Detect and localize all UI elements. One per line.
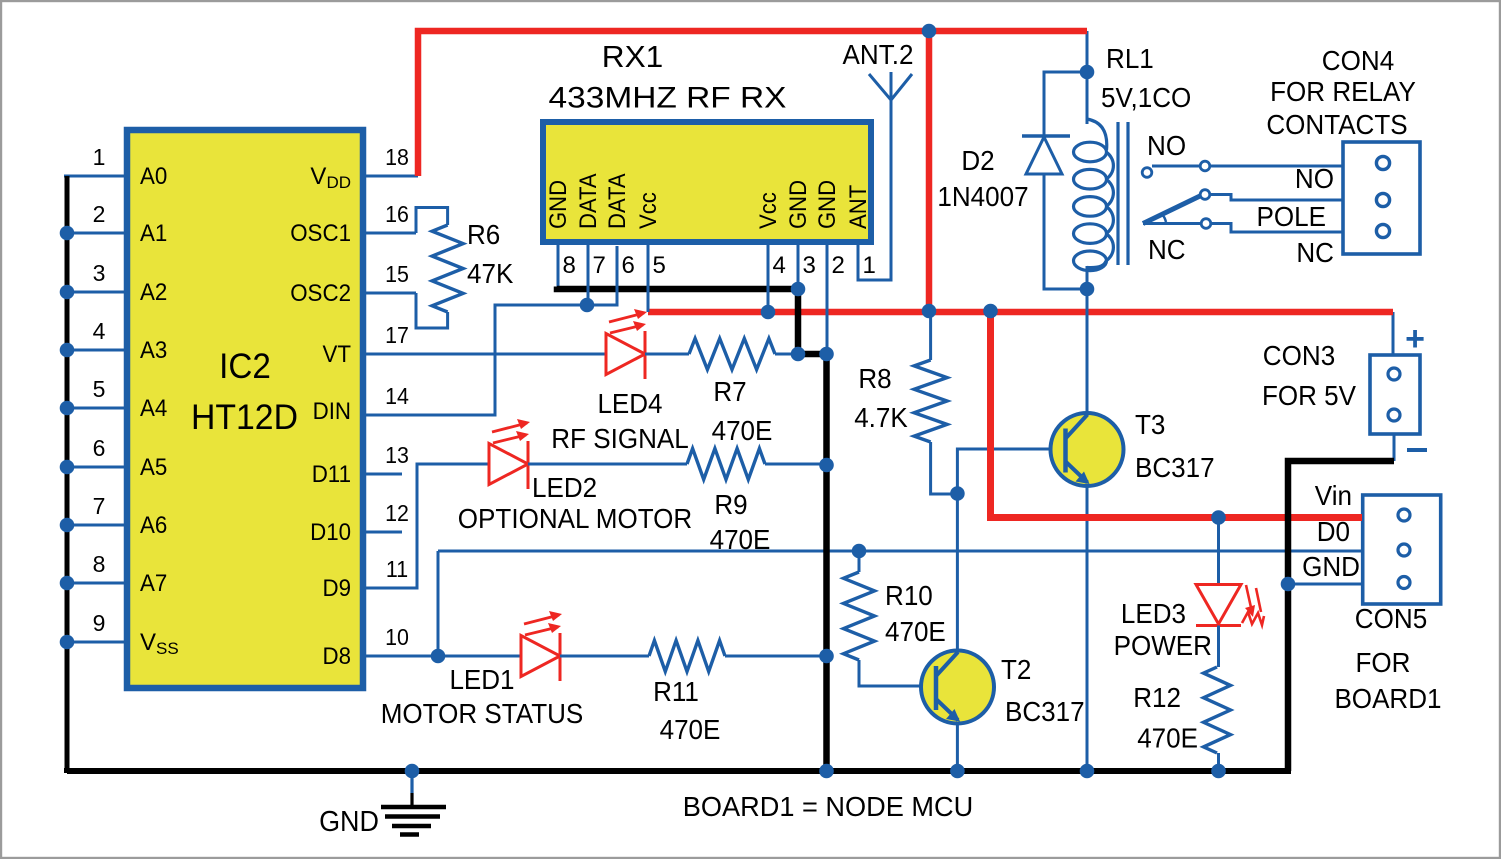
svg-text:7: 7 — [93, 493, 106, 519]
junction D8/LED1 — [431, 649, 446, 664]
transistor T2 NPN BC317 — [921, 651, 994, 724]
relay switch NO contact — [1152, 165, 1343, 168]
junction top rail — [922, 24, 937, 39]
wire pin 16 OSC1 stub — [363, 232, 416, 235]
wire pin 6 to bus — [64, 466, 125, 469]
resistor R11 470E — [649, 641, 725, 672]
svg-text:3: 3 — [803, 252, 816, 279]
svg-text:ANT.2: ANT.2 — [843, 39, 914, 70]
svg-text:MOTOR STATUS: MOTOR STATUS — [381, 698, 584, 729]
svg-text:T2: T2 — [1001, 654, 1031, 685]
wire pin 7 to bus — [64, 524, 125, 527]
svg-text:POWER: POWER — [1114, 630, 1212, 661]
junction R8/T2 collector/T3 base — [950, 486, 965, 501]
svg-text:Vcc: Vcc — [755, 192, 782, 229]
svg-text:16: 16 — [385, 201, 409, 227]
LED LED3 pointing down — [1217, 518, 1220, 585]
wire pin 18 VDD stub — [363, 175, 418, 178]
relay switch pole lever — [1143, 196, 1200, 224]
svg-text:5V,1CO: 5V,1CO — [1101, 82, 1191, 113]
wire pin 17 VT to LED4 — [363, 353, 606, 356]
svg-text:4: 4 — [773, 252, 786, 279]
wire LED4 to R7 — [645, 353, 689, 356]
wire T2 emitter to gnd rail — [956, 723, 959, 771]
svg-text:14: 14 — [385, 383, 409, 409]
svg-text:11: 11 — [386, 556, 408, 582]
wire T3 collector to relay/diode — [1086, 289, 1089, 413]
svg-text:R8: R8 — [858, 363, 891, 394]
svg-text:17: 17 — [385, 322, 409, 348]
svg-text:+: + — [1405, 320, 1425, 358]
wire RX pin 8 lead — [557, 243, 560, 289]
resistor R12 470E — [1217, 626, 1220, 668]
junction bus pin 4 — [60, 343, 75, 358]
svg-text:470E: 470E — [1137, 723, 1198, 754]
junction relay/D2/T3 — [1080, 282, 1095, 297]
svg-text:D9: D9 — [323, 575, 352, 602]
svg-text:6: 6 — [622, 252, 635, 279]
junction ground tap — [405, 764, 420, 779]
svg-text:15: 15 — [385, 261, 409, 287]
svg-text:5: 5 — [653, 252, 666, 279]
svg-text:GND: GND — [545, 180, 572, 229]
resistor R6 47K — [416, 208, 448, 234]
connector CON3 — [1392, 312, 1395, 355]
junction bus pin 2 — [60, 226, 75, 241]
wire CON5 GND pin — [1288, 583, 1362, 586]
wire pin 4 to bus — [64, 349, 125, 352]
junction bus pin 5 — [60, 401, 75, 416]
wire RX pin 5 Vcc lead — [647, 243, 650, 312]
svg-text:HT12D: HT12D — [191, 398, 298, 437]
resistor R7 470E — [689, 339, 775, 370]
svg-text:RX1: RX1 — [602, 39, 664, 74]
svg-text:Vcc: Vcc — [635, 192, 662, 229]
svg-text:LED3: LED3 — [1121, 598, 1186, 629]
junction bus pin 9 — [60, 635, 75, 650]
svg-text:GND: GND — [319, 806, 379, 838]
junction RX pin3 gnd — [791, 282, 806, 297]
antenna ANT.2 symbol — [869, 74, 912, 100]
svg-text:8: 8 — [93, 551, 106, 577]
junction bus pin 3 — [60, 285, 75, 300]
svg-text:BC317: BC317 — [1005, 696, 1085, 727]
svg-text:433MHZ RF RX: 433MHZ RF RX — [549, 82, 787, 115]
svg-text:DATA: DATA — [604, 173, 631, 229]
svg-text:D10: D10 — [310, 519, 351, 546]
junction T3 emitter gnd — [1080, 764, 1095, 779]
junction Vin LED3 — [1211, 510, 1226, 525]
svg-text:470E: 470E — [710, 524, 771, 555]
svg-text:FOR: FOR — [1356, 647, 1411, 678]
svg-text:R12: R12 — [1133, 682, 1181, 713]
svg-text:GND: GND — [785, 180, 812, 229]
svg-text:CON3: CON3 — [1263, 340, 1335, 371]
svg-text:A2: A2 — [140, 279, 167, 306]
svg-text:LED2: LED2 — [532, 472, 597, 503]
inductor coil loops — [1087, 119, 1107, 150]
wire LED1 to R11 — [560, 655, 649, 658]
connector CON4 — [1343, 142, 1420, 254]
junction bus pin 6 — [60, 460, 75, 475]
wire T3 base link — [957, 449, 1066, 494]
wire T3 emitter to gnd rail — [1086, 486, 1089, 771]
junction RX Vcc pin4 — [761, 305, 776, 320]
label minus — [1407, 448, 1427, 452]
svg-text:R9: R9 — [714, 489, 747, 520]
svg-text:CON4: CON4 — [1322, 45, 1394, 76]
wire pin 15 OSC2 stub — [363, 292, 416, 295]
wire RX pin 1 ANT lead to antenna — [858, 100, 891, 280]
relay core bars — [1116, 122, 1119, 265]
svg-text:FOR 5V: FOR 5V — [1262, 380, 1356, 411]
junction gnd vertical rail — [819, 764, 834, 779]
svg-text:6: 6 — [93, 435, 106, 461]
LED LED4 — [606, 334, 645, 375]
resistor R10 470E — [858, 551, 861, 572]
junction R9 gnd — [819, 458, 834, 473]
junction relay/D2 top — [1080, 65, 1095, 80]
connector CON5 — [1363, 495, 1441, 604]
wire pin 8 to bus — [64, 582, 125, 585]
junction gnd corner — [819, 347, 834, 362]
wire ground rail bottom — [67, 771, 1291, 773]
junction R11 gnd — [819, 649, 834, 664]
wire red branch to Vin — [991, 308, 1363, 518]
svg-text:OPTIONAL MOTOR: OPTIONAL MOTOR — [458, 503, 692, 534]
svg-text:470E: 470E — [660, 714, 721, 745]
svg-text:T3: T3 — [1135, 409, 1165, 440]
junction bus pin 7 — [60, 518, 75, 533]
svg-text:A4: A4 — [140, 395, 167, 422]
svg-text:A6: A6 — [140, 512, 167, 539]
wire red top VDD rail — [418, 31, 1087, 176]
svg-text:VT: VT — [323, 341, 352, 368]
resistor R9 470E — [687, 449, 765, 480]
svg-text:LED4: LED4 — [597, 388, 662, 419]
svg-text:8: 8 — [563, 252, 576, 279]
IC IC2 HT12D body — [127, 130, 363, 688]
wire pole to CON4 — [1210, 195, 1343, 201]
junction rail Vin branch — [983, 304, 998, 319]
svg-text:D8: D8 — [323, 643, 352, 670]
ground GND symbol — [410, 771, 413, 793]
svg-text:R7: R7 — [713, 376, 746, 407]
wire GND drop to main gnd vertical — [798, 289, 829, 354]
svg-text:BOARD1 = NODE MCU: BOARD1 = NODE MCU — [683, 791, 974, 822]
relay RL1 coil — [1086, 31, 1089, 124]
junction rail R8 — [922, 304, 937, 319]
svg-text:LED1: LED1 — [449, 664, 514, 695]
svg-text:R10: R10 — [885, 580, 933, 611]
svg-text:NC: NC — [1296, 237, 1334, 268]
svg-text:D0: D0 — [1317, 516, 1350, 547]
svg-text:A5: A5 — [140, 454, 167, 481]
junction T2 emitter gnd — [950, 764, 965, 779]
svg-text:3: 3 — [93, 260, 106, 286]
svg-text:CONTACTS: CONTACTS — [1266, 109, 1407, 140]
junction bus pin 8 — [60, 576, 75, 591]
wire CON3 minus to gnd — [1288, 461, 1394, 771]
wire pin 11 D9 to LED2 — [363, 464, 489, 588]
wire RX pin 7 lead — [587, 243, 590, 305]
svg-text:470E: 470E — [712, 415, 773, 446]
diode D2 1N4007 — [1044, 72, 1087, 136]
svg-text:4: 4 — [93, 318, 106, 344]
LED LED1 — [521, 636, 560, 677]
wire RX pin 3 GND lead — [797, 243, 800, 289]
svg-text:OSC2: OSC2 — [290, 280, 351, 307]
svg-text:RF SIGNAL: RF SIGNAL — [551, 423, 689, 454]
svg-text:R11: R11 — [653, 676, 699, 707]
wire pin 1 to bus — [64, 175, 125, 178]
wire T2 collector — [956, 494, 959, 650]
wire left address bus vertical — [65, 176, 70, 771]
svg-text:47K: 47K — [467, 258, 514, 289]
svg-text:D11: D11 — [312, 461, 351, 488]
svg-text:A1: A1 — [140, 220, 167, 247]
svg-text:A0: A0 — [140, 163, 167, 190]
svg-text:OSC1: OSC1 — [290, 220, 351, 247]
IC RX1 433MHz RF receiver module — [543, 122, 871, 242]
svg-text:ANT: ANT — [845, 184, 872, 229]
svg-text:12: 12 — [385, 500, 409, 526]
wire pin 14 DIN to RX data — [363, 246, 617, 415]
svg-text:BC317: BC317 — [1135, 452, 1215, 483]
svg-text:470E: 470E — [885, 616, 946, 647]
svg-text:NO: NO — [1147, 130, 1186, 161]
svg-text:NO: NO — [1295, 163, 1334, 194]
svg-text:POLE: POLE — [1257, 201, 1327, 232]
junction gnd CON5 — [1281, 577, 1296, 592]
wire red link top rail to 5V rail — [926, 31, 933, 312]
svg-text:7: 7 — [593, 252, 606, 279]
wire pin 10 D8 to LED1 — [363, 655, 521, 658]
svg-text:A7: A7 — [140, 570, 167, 597]
transistor T3 NPN BC317 — [1051, 413, 1124, 486]
svg-text:NC: NC — [1148, 234, 1186, 265]
svg-text:5: 5 — [93, 376, 106, 402]
junction R7 gnd — [791, 347, 806, 362]
svg-text:13: 13 — [385, 442, 409, 468]
svg-text:GND: GND — [814, 180, 841, 229]
relay switch NC contact — [1143, 222, 1201, 225]
wire pin 13 stub — [363, 473, 402, 476]
LED LED2 — [489, 444, 528, 485]
junction D0 R10 — [852, 544, 867, 559]
svg-text:GND: GND — [1302, 551, 1360, 582]
wire pin 9 to bus — [64, 641, 125, 644]
svg-text:RL1: RL1 — [1106, 43, 1154, 74]
svg-text:CON5: CON5 — [1355, 603, 1427, 634]
wire D0 line D8 to CON5 — [438, 550, 1362, 553]
svg-text:10: 10 — [385, 624, 409, 650]
svg-text:2: 2 — [832, 252, 845, 279]
svg-text:R6: R6 — [467, 219, 500, 250]
wire D8 riser to D0 line — [437, 551, 440, 656]
svg-text:DATA: DATA — [575, 173, 602, 229]
wire pin 12 stub — [363, 531, 402, 534]
svg-text:IC2: IC2 — [219, 347, 271, 386]
wire pin 5 to bus — [64, 407, 125, 410]
svg-text:DIN: DIN — [313, 398, 351, 425]
wire pin 3 to bus — [64, 291, 125, 294]
svg-text:18: 18 — [385, 144, 409, 170]
svg-text:D2: D2 — [961, 145, 994, 176]
svg-text:4.7K: 4.7K — [854, 402, 908, 433]
wire red main 5V rail — [648, 309, 1393, 316]
svg-text:A3: A3 — [140, 337, 167, 364]
svg-text:1: 1 — [93, 144, 106, 170]
svg-text:1: 1 — [863, 252, 876, 279]
wire main GND vertical — [823, 351, 830, 771]
resistor R8 4.7K — [929, 311, 932, 360]
svg-text:2: 2 — [93, 201, 106, 227]
svg-text:9: 9 — [93, 610, 106, 636]
svg-text:BOARD1: BOARD1 — [1334, 683, 1441, 714]
junction DATA pins — [580, 298, 595, 313]
wire LED2 to R9 — [528, 463, 687, 466]
svg-text:1N4007: 1N4007 — [937, 181, 1028, 212]
wire pin 2 to bus — [64, 232, 125, 235]
wire GND jumper under RX1 — [557, 287, 798, 290]
svg-text:FOR RELAY: FOR RELAY — [1270, 76, 1416, 107]
junction R12 gnd — [1211, 764, 1226, 779]
wire RX pin 4 Vcc lead — [767, 243, 770, 312]
ground symbol bars — [410, 793, 413, 807]
wire RX pin 2 GND lead — [826, 243, 829, 354]
svg-text:Vin: Vin — [1315, 480, 1352, 511]
